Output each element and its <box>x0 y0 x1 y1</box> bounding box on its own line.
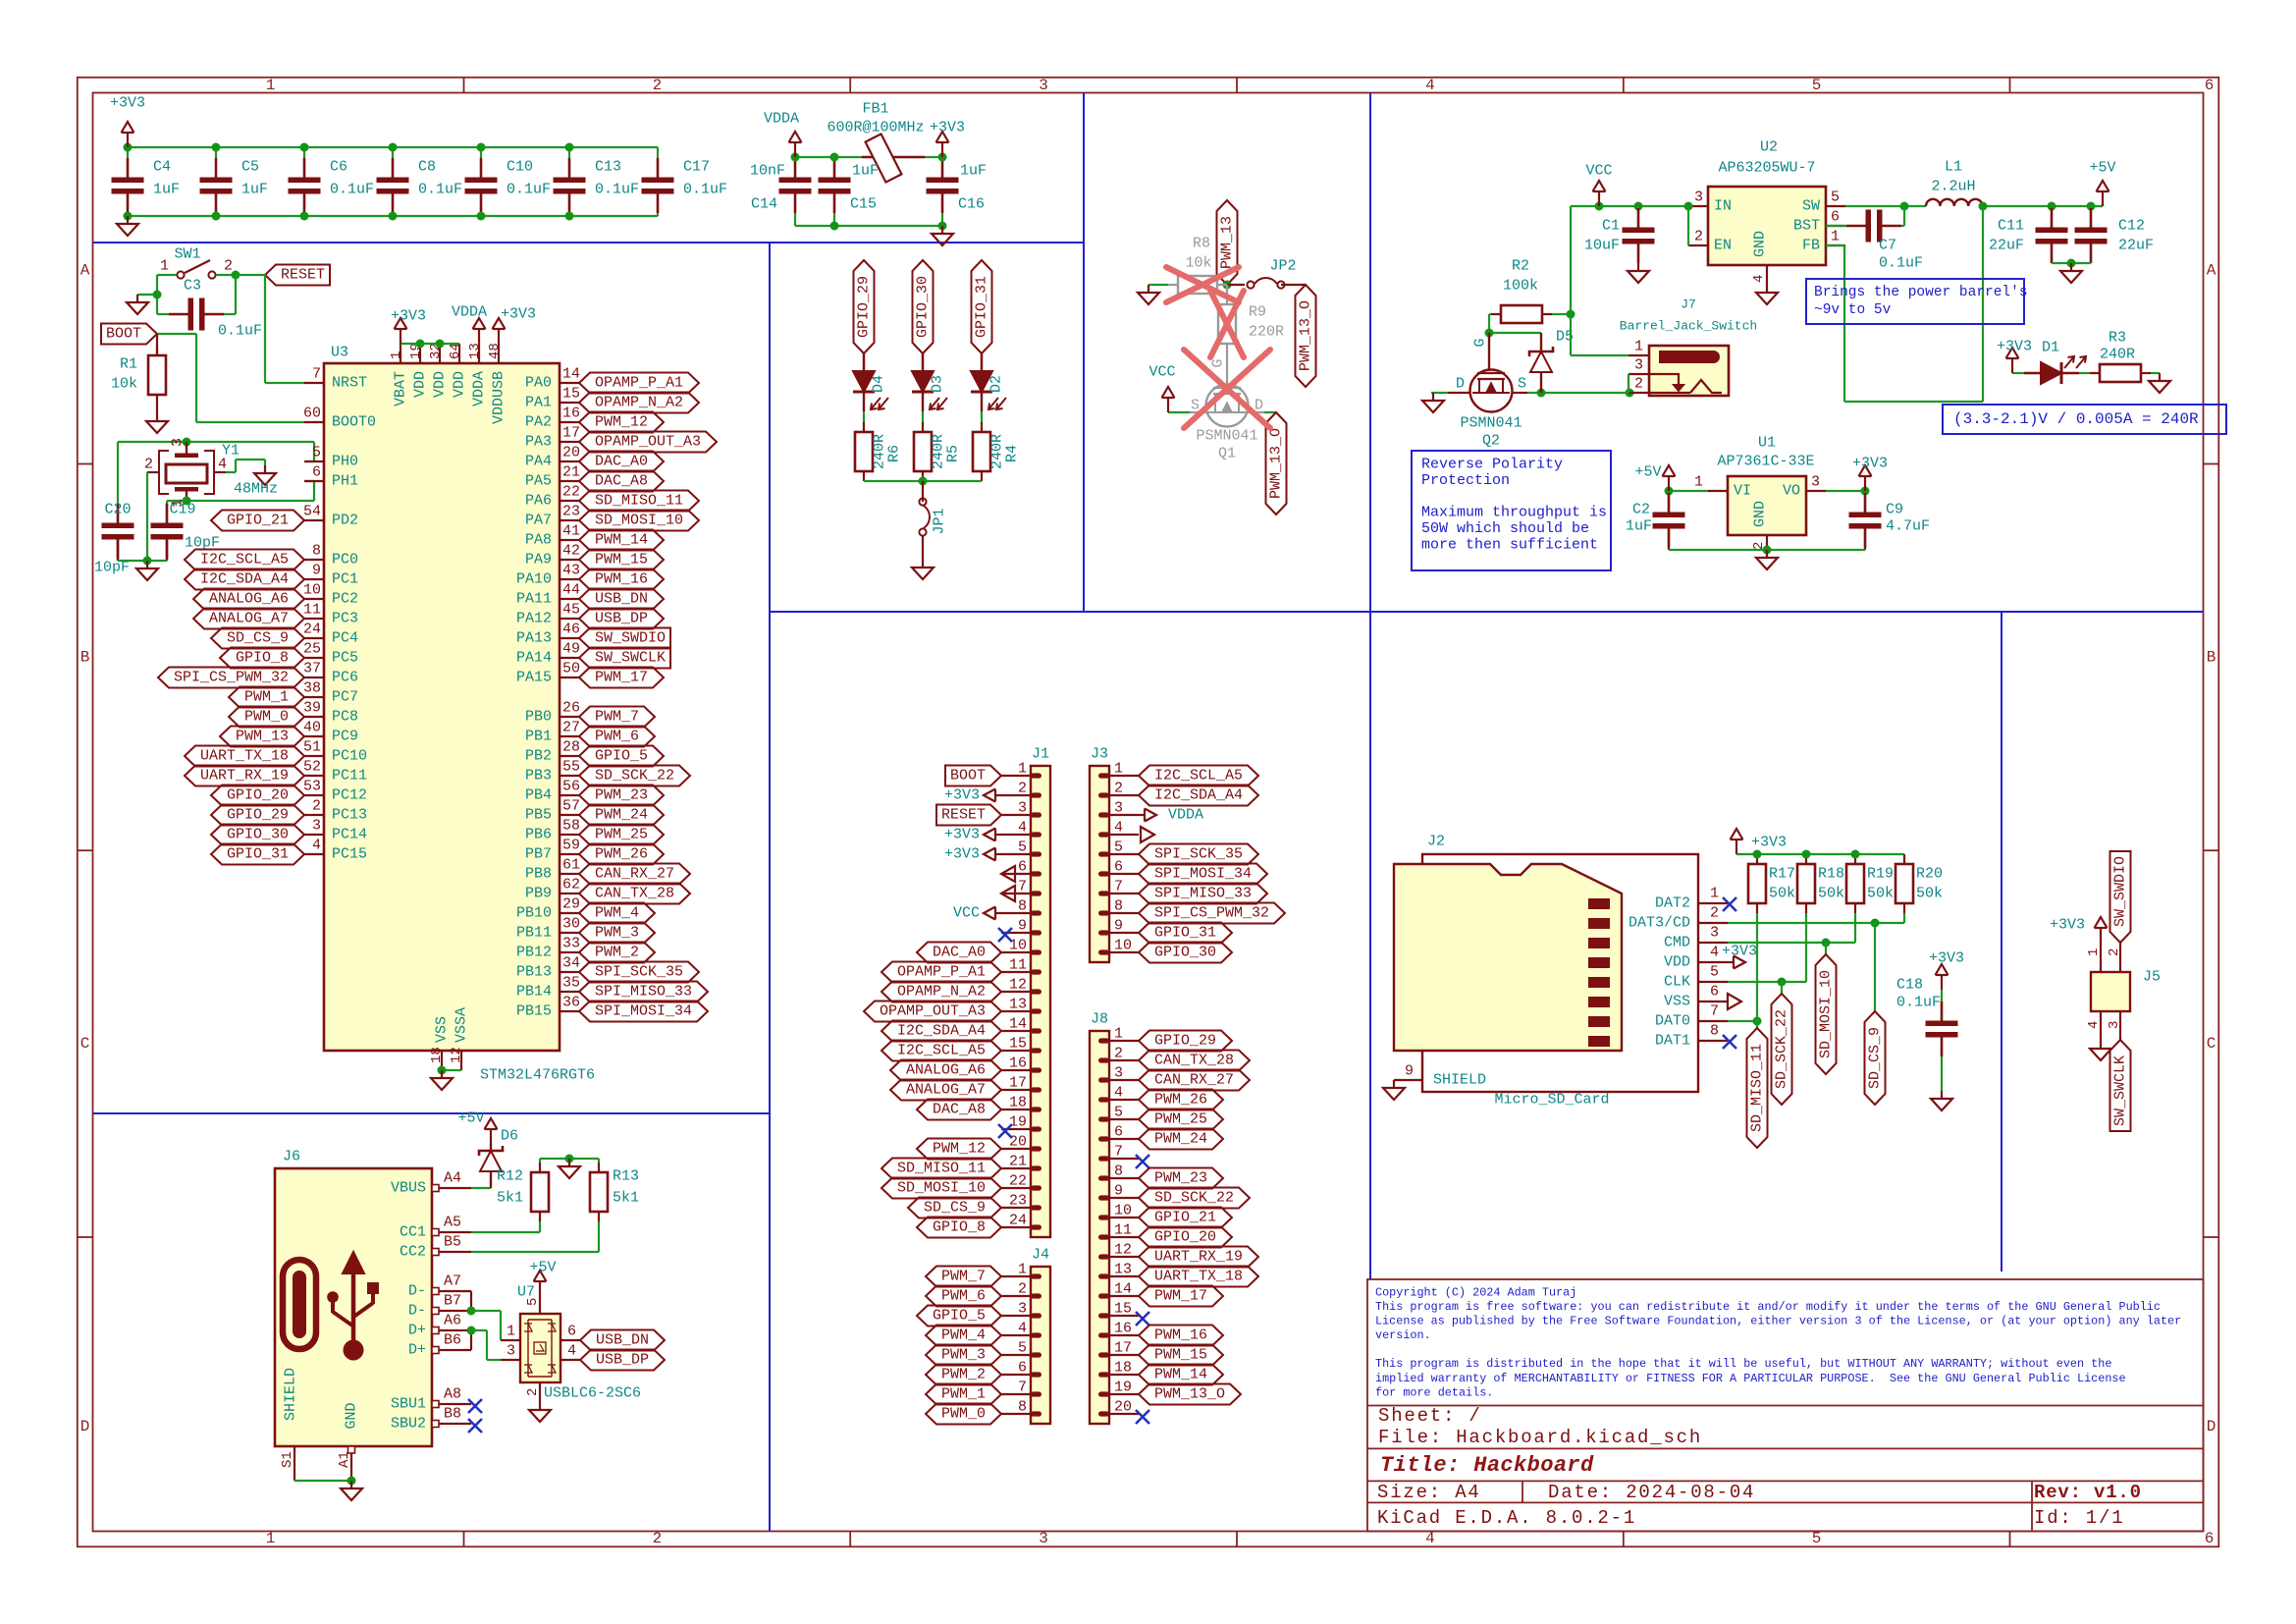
svg-text:19: 19 <box>1009 1114 1027 1131</box>
svg-text:10pF: 10pF <box>94 560 130 576</box>
svg-text:600R@100MHz: 600R@100MHz <box>827 120 924 136</box>
svg-text:KiCad E.D.A. 8.0.2-1: KiCad E.D.A. 8.0.2-1 <box>1377 1507 1636 1529</box>
svg-text:3: 3 <box>1710 925 1719 942</box>
svg-text:PB6: PB6 <box>525 827 552 843</box>
svg-text:SPI_MISO_33: SPI_MISO_33 <box>1154 886 1252 902</box>
svg-text:I2C_SDA_A4: I2C_SDA_A4 <box>897 1023 986 1040</box>
svg-text:SD_SCK_22: SD_SCK_22 <box>1154 1190 1234 1207</box>
svg-text:14: 14 <box>1009 1016 1027 1033</box>
svg-text:PD2: PD2 <box>332 513 358 529</box>
svg-text:GPIO_29: GPIO_29 <box>1154 1033 1216 1050</box>
svg-text:6: 6 <box>2205 77 2215 94</box>
svg-text:C: C <box>80 1035 90 1053</box>
svg-text:PC12: PC12 <box>332 787 367 804</box>
svg-text:VDDA: VDDA <box>1168 807 1203 824</box>
svg-text:35: 35 <box>562 975 580 992</box>
svg-text:PC10: PC10 <box>332 748 367 765</box>
svg-text:0.1uF: 0.1uF <box>507 182 551 198</box>
svg-text:7: 7 <box>1114 879 1123 895</box>
svg-text:4: 4 <box>1425 1530 1435 1547</box>
svg-text:Date: 2024-08-04: Date: 2024-08-04 <box>1548 1482 1755 1503</box>
svg-text:D6: D6 <box>501 1128 518 1145</box>
svg-text:1: 1 <box>266 1530 276 1547</box>
svg-text:A4: A4 <box>444 1170 461 1187</box>
svg-text:52: 52 <box>303 759 321 776</box>
svg-text:GND: GND <box>1752 501 1769 527</box>
svg-text:22: 22 <box>1009 1173 1027 1190</box>
svg-text:PWM_25: PWM_25 <box>1154 1111 1207 1128</box>
svg-text:22: 22 <box>562 484 580 501</box>
svg-text:D+: D+ <box>408 1323 426 1339</box>
svg-text:DAC_A0: DAC_A0 <box>933 945 986 961</box>
svg-text:2: 2 <box>1710 905 1719 922</box>
svg-text:PWM_25: PWM_25 <box>595 827 648 843</box>
svg-text:22uF: 22uF <box>2118 238 2154 254</box>
svg-text:8: 8 <box>1018 1399 1027 1416</box>
svg-text:PWM_6: PWM_6 <box>941 1288 986 1305</box>
svg-text:+5V: +5V <box>1634 464 1661 481</box>
svg-text:50k: 50k <box>1818 886 1844 902</box>
svg-text:40: 40 <box>303 720 321 736</box>
svg-text:UART_RX_19: UART_RX_19 <box>200 768 289 785</box>
svg-text:ANALOG_A6: ANALOG_A6 <box>209 591 289 608</box>
svg-text:43: 43 <box>562 563 580 579</box>
svg-text:C9: C9 <box>1886 502 1903 518</box>
svg-text:SPI_MISO_33: SPI_MISO_33 <box>595 984 692 1001</box>
svg-text:12: 12 <box>1009 977 1027 994</box>
svg-text:62: 62 <box>562 877 580 893</box>
svg-text:5: 5 <box>312 445 321 461</box>
svg-text:I2C_SCL_A5: I2C_SCL_A5 <box>897 1043 986 1059</box>
svg-text:10nF: 10nF <box>750 163 785 180</box>
svg-text:VI: VI <box>1734 483 1751 500</box>
svg-text:J4: J4 <box>1032 1247 1049 1264</box>
svg-text:7: 7 <box>312 366 321 383</box>
svg-text:GND: GND <box>344 1402 360 1429</box>
svg-text:for more details.: for more details. <box>1375 1385 1493 1399</box>
svg-text:R8: R8 <box>1193 236 1210 252</box>
svg-text:UART_TX_18: UART_TX_18 <box>1154 1269 1243 1285</box>
svg-text:34: 34 <box>562 955 580 972</box>
svg-text:PWM_13: PWM_13 <box>1219 216 1236 269</box>
svg-text:PWM_13_O: PWM_13_O <box>1268 428 1285 499</box>
svg-text:U1: U1 <box>1758 435 1776 452</box>
svg-text:R5: R5 <box>945 445 962 462</box>
svg-text:Size: A4: Size: A4 <box>1377 1482 1481 1503</box>
svg-text:11: 11 <box>1114 1222 1132 1239</box>
svg-text:PB10: PB10 <box>516 905 552 922</box>
svg-text:GPIO_8: GPIO_8 <box>933 1219 986 1236</box>
svg-text:RESET: RESET <box>281 267 325 284</box>
svg-text:100k: 100k <box>1503 278 1538 295</box>
svg-text:J1: J1 <box>1032 746 1049 763</box>
svg-text:A8: A8 <box>444 1386 461 1403</box>
svg-text:GPIO_30: GPIO_30 <box>1154 945 1216 961</box>
svg-text:8: 8 <box>1114 1164 1123 1180</box>
svg-text:PA13: PA13 <box>516 630 552 647</box>
svg-text:CC2: CC2 <box>400 1244 426 1261</box>
svg-text:USB_DN: USB_DN <box>595 591 648 608</box>
svg-text:PWM_13_O: PWM_13_O <box>1298 300 1314 371</box>
svg-text:6: 6 <box>1018 859 1027 876</box>
svg-text:A5: A5 <box>444 1215 461 1231</box>
svg-text:VCC: VCC <box>1585 163 1612 180</box>
svg-text:A: A <box>80 262 90 280</box>
svg-text:SPI_MOSI_34: SPI_MOSI_34 <box>595 1003 692 1020</box>
svg-text:VDDA: VDDA <box>471 371 488 406</box>
svg-text:J8: J8 <box>1091 1011 1108 1028</box>
svg-text:3: 3 <box>1694 189 1703 206</box>
svg-text:J5: J5 <box>2143 969 2161 986</box>
svg-text:PWM_0: PWM_0 <box>941 1406 986 1423</box>
svg-text:DAT3/CD: DAT3/CD <box>1629 915 1690 932</box>
svg-text:L1: L1 <box>1945 159 1962 176</box>
svg-text:6: 6 <box>312 464 321 481</box>
svg-text:1: 1 <box>389 352 404 359</box>
svg-text:GPIO_30: GPIO_30 <box>227 827 289 843</box>
svg-text:3: 3 <box>1114 1065 1123 1082</box>
svg-text:D-: D- <box>408 1303 426 1320</box>
svg-text:PB7: PB7 <box>525 846 552 863</box>
svg-text:U3: U3 <box>331 345 348 361</box>
svg-text:54: 54 <box>303 504 321 520</box>
svg-text:7: 7 <box>1018 879 1027 895</box>
svg-text:UART_TX_18: UART_TX_18 <box>200 748 289 765</box>
svg-text:50k: 50k <box>1769 886 1795 902</box>
svg-text:3: 3 <box>2107 1021 2122 1029</box>
svg-text:5: 5 <box>1710 964 1719 981</box>
svg-text:R17: R17 <box>1769 866 1795 883</box>
svg-text:PWM_24: PWM_24 <box>1154 1131 1207 1148</box>
svg-text:48: 48 <box>487 343 503 359</box>
svg-text:6: 6 <box>2205 1530 2215 1547</box>
svg-text:9: 9 <box>1114 1183 1123 1200</box>
svg-text:PA3: PA3 <box>525 434 552 451</box>
svg-text:SD_MOSI_10: SD_MOSI_10 <box>595 513 683 529</box>
svg-text:J7: J7 <box>1681 298 1696 312</box>
svg-text:+3V3: +3V3 <box>501 306 536 323</box>
svg-text:PC15: PC15 <box>332 846 367 863</box>
svg-text:57: 57 <box>562 798 580 815</box>
svg-text:C: C <box>2207 1035 2216 1053</box>
svg-text:PWM_6: PWM_6 <box>595 729 639 745</box>
svg-text:CMD: CMD <box>1664 935 1690 951</box>
svg-text:6: 6 <box>1114 859 1123 876</box>
svg-text:PA5: PA5 <box>525 473 552 490</box>
svg-text:+3V3: +3V3 <box>1751 835 1787 851</box>
svg-text:VCC: VCC <box>953 905 980 922</box>
svg-text:55: 55 <box>562 759 580 776</box>
svg-text:GND: GND <box>1752 231 1769 257</box>
svg-text:GPIO_21: GPIO_21 <box>227 513 289 529</box>
svg-text:PC2: PC2 <box>332 591 358 608</box>
svg-text:SD_MOSI_10: SD_MOSI_10 <box>1818 970 1835 1058</box>
svg-text:27: 27 <box>562 720 580 736</box>
svg-text:CAN_TX_28: CAN_TX_28 <box>1154 1053 1234 1069</box>
svg-text:C8: C8 <box>418 159 436 176</box>
svg-text:PC13: PC13 <box>332 807 367 824</box>
svg-text:SBU1: SBU1 <box>391 1396 426 1413</box>
svg-text:PSMN041: PSMN041 <box>1460 415 1522 432</box>
svg-text:4: 4 <box>312 838 321 854</box>
svg-text:OPAMP_P_A1: OPAMP_P_A1 <box>595 375 683 392</box>
svg-text:3: 3 <box>1018 1301 1027 1318</box>
svg-text:1: 1 <box>1634 339 1643 355</box>
svg-text:SD_CS_9: SD_CS_9 <box>924 1200 986 1217</box>
svg-text:VCC: VCC <box>1148 364 1175 381</box>
svg-text:+3V3: +3V3 <box>1997 339 2032 355</box>
svg-text:11: 11 <box>303 602 321 619</box>
svg-text:4: 4 <box>567 1343 576 1360</box>
svg-text:9: 9 <box>1018 918 1027 935</box>
svg-text:VBUS: VBUS <box>391 1180 426 1197</box>
svg-text:SBU2: SBU2 <box>391 1416 426 1433</box>
svg-text:C20: C20 <box>104 502 131 518</box>
svg-text:R1: R1 <box>120 356 137 373</box>
svg-text:PWM_16: PWM_16 <box>1154 1327 1207 1344</box>
svg-text:OPAMP_N_A2: OPAMP_N_A2 <box>595 395 683 411</box>
svg-text:D: D <box>2207 1418 2216 1435</box>
svg-text:5: 5 <box>1114 1105 1123 1121</box>
svg-text:37: 37 <box>303 661 321 677</box>
svg-text:B5: B5 <box>444 1234 461 1251</box>
svg-text:28: 28 <box>562 739 580 756</box>
svg-text:10k: 10k <box>111 376 137 393</box>
svg-text:SW1: SW1 <box>174 246 200 263</box>
svg-text:C19: C19 <box>169 502 195 518</box>
svg-text:This program is free software:: This program is free software: you can r… <box>1375 1300 2161 1314</box>
svg-text:GPIO_31: GPIO_31 <box>1154 925 1216 942</box>
svg-text:VDDA: VDDA <box>452 304 487 321</box>
svg-text:C12: C12 <box>2118 218 2145 235</box>
svg-text:SPI_CS_PWM_32: SPI_CS_PWM_32 <box>174 670 289 686</box>
svg-text:EN: EN <box>1714 238 1732 254</box>
svg-text:45: 45 <box>562 602 580 619</box>
svg-text:39: 39 <box>303 700 321 717</box>
svg-text:OPAMP_OUT_A3: OPAMP_OUT_A3 <box>595 434 701 451</box>
svg-text:29: 29 <box>562 896 580 913</box>
svg-text:PA6: PA6 <box>525 493 552 510</box>
svg-text:59: 59 <box>562 838 580 854</box>
svg-text:PWM_13_O: PWM_13_O <box>1154 1386 1225 1403</box>
svg-text:PWM_14: PWM_14 <box>1154 1367 1207 1383</box>
svg-text:PH1: PH1 <box>332 473 358 490</box>
svg-text:PWM_0: PWM_0 <box>244 709 289 726</box>
svg-text:5: 5 <box>1831 189 1840 206</box>
svg-text:4.7uF: 4.7uF <box>1886 518 1930 535</box>
svg-text:4: 4 <box>1114 820 1123 837</box>
svg-text:2: 2 <box>1018 781 1027 797</box>
svg-text:3: 3 <box>1018 800 1027 817</box>
svg-text:ANALOG_A7: ANALOG_A7 <box>906 1082 986 1099</box>
svg-text:5: 5 <box>1018 839 1027 856</box>
svg-text:4: 4 <box>2086 1021 2102 1029</box>
svg-text:0.1uF: 0.1uF <box>330 182 374 198</box>
svg-text:2: 2 <box>1634 376 1643 393</box>
svg-text:PWM_12: PWM_12 <box>933 1141 986 1158</box>
svg-text:CAN_TX_28: CAN_TX_28 <box>595 886 674 902</box>
svg-text:44: 44 <box>562 582 580 599</box>
svg-text:26: 26 <box>562 700 580 717</box>
svg-text:9: 9 <box>312 563 321 579</box>
svg-text:GPIO_5: GPIO_5 <box>933 1308 986 1325</box>
svg-text:VDD: VDD <box>412 371 429 398</box>
svg-text:16: 16 <box>1009 1056 1027 1072</box>
svg-text:~9v to 5v: ~9v to 5v <box>1814 302 1892 318</box>
svg-text:1uF: 1uF <box>960 163 987 180</box>
svg-text:SW_SWDIO: SW_SWDIO <box>2112 856 2129 927</box>
svg-text:PWM_4: PWM_4 <box>941 1327 986 1344</box>
svg-text:G: G <box>1472 338 1489 347</box>
svg-text:OPAMP_OUT_A3: OPAMP_OUT_A3 <box>880 1003 986 1020</box>
svg-text:6: 6 <box>1114 1124 1123 1141</box>
svg-text:DAT0: DAT0 <box>1655 1013 1690 1030</box>
svg-text:AP7361C-33E: AP7361C-33E <box>1717 454 1814 470</box>
svg-text:B6: B6 <box>444 1332 461 1349</box>
svg-text:Copyright (C) 2024 Adam Turaj: Copyright (C) 2024 Adam Turaj <box>1375 1286 1576 1300</box>
svg-text:Sheet: /: Sheet: / <box>1378 1405 1482 1427</box>
svg-text:1uF: 1uF <box>153 182 180 198</box>
svg-text:B7: B7 <box>444 1293 461 1310</box>
svg-text:+3V3: +3V3 <box>1722 944 1757 960</box>
svg-text:1uF: 1uF <box>1626 518 1652 535</box>
svg-text:USBLC6-2SC6: USBLC6-2SC6 <box>544 1385 641 1402</box>
svg-text:License as published by the Fr: License as published by the Free Softwar… <box>1375 1315 2181 1328</box>
svg-text:53: 53 <box>303 779 321 795</box>
svg-text:C18: C18 <box>1896 977 1923 994</box>
svg-text:23: 23 <box>1009 1193 1027 1210</box>
svg-text:IN: IN <box>1714 198 1732 215</box>
svg-text:5: 5 <box>525 1298 541 1306</box>
svg-text:PWM_17: PWM_17 <box>1154 1288 1207 1305</box>
svg-text:PC6: PC6 <box>332 670 358 686</box>
svg-text:J2: J2 <box>1427 834 1445 850</box>
svg-text:3: 3 <box>312 818 321 835</box>
svg-text:+3V3: +3V3 <box>944 827 980 843</box>
svg-text:5k1: 5k1 <box>613 1190 639 1207</box>
svg-text:PWM_26: PWM_26 <box>1154 1092 1207 1109</box>
svg-text:PB3: PB3 <box>525 768 552 785</box>
svg-text:0.1uF: 0.1uF <box>683 182 727 198</box>
svg-text:SHIELD: SHIELD <box>283 1368 299 1421</box>
svg-text:USB_DP: USB_DP <box>596 1352 649 1369</box>
svg-text:1: 1 <box>1710 886 1719 902</box>
svg-text:SPI_SCK_35: SPI_SCK_35 <box>1154 846 1243 863</box>
svg-text:PC4: PC4 <box>332 630 358 647</box>
svg-text:PB14: PB14 <box>516 984 552 1001</box>
svg-text:C1: C1 <box>1602 218 1620 235</box>
svg-text:3: 3 <box>170 438 187 447</box>
svg-text:PB4: PB4 <box>525 787 552 804</box>
svg-text:10uF: 10uF <box>1584 238 1620 254</box>
svg-text:1: 1 <box>2086 948 2102 956</box>
svg-text:21: 21 <box>562 464 580 481</box>
svg-text:PA9: PA9 <box>525 552 552 568</box>
svg-text:6: 6 <box>1018 1360 1027 1377</box>
svg-text:PWM_1: PWM_1 <box>941 1386 986 1403</box>
svg-text:GPIO_8: GPIO_8 <box>236 650 289 667</box>
svg-text:SD_MOSI_10: SD_MOSI_10 <box>897 1180 986 1197</box>
svg-text:C15: C15 <box>850 196 877 213</box>
svg-text:SD_MISO_11: SD_MISO_11 <box>595 493 683 510</box>
svg-text:7: 7 <box>1018 1380 1027 1396</box>
svg-text:SD_MISO_11: SD_MISO_11 <box>1749 1044 1766 1132</box>
svg-text:VDD: VDD <box>452 371 468 398</box>
svg-text:50k: 50k <box>1916 886 1943 902</box>
svg-text:S1: S1 <box>280 1451 295 1468</box>
svg-text:4: 4 <box>218 457 227 473</box>
svg-text:GPIO_5: GPIO_5 <box>595 748 648 765</box>
svg-text:GPIO_21: GPIO_21 <box>1154 1210 1216 1226</box>
svg-text:PB12: PB12 <box>516 945 552 961</box>
svg-text:56: 56 <box>562 779 580 795</box>
svg-text:18: 18 <box>1009 1095 1027 1111</box>
svg-text:PC14: PC14 <box>332 827 367 843</box>
svg-text:4: 4 <box>1751 275 1767 283</box>
svg-text:10: 10 <box>1114 938 1132 954</box>
svg-text:PWM_3: PWM_3 <box>595 925 639 942</box>
svg-text:VDD: VDD <box>432 371 449 398</box>
svg-text:A7: A7 <box>444 1273 461 1290</box>
svg-text:2: 2 <box>653 77 663 94</box>
svg-text:PWM_2: PWM_2 <box>941 1367 986 1383</box>
svg-text:Brings the power barrel's: Brings the power barrel's <box>1814 285 2028 300</box>
svg-text:R4: R4 <box>1004 445 1021 462</box>
svg-text:PWM_15: PWM_15 <box>1154 1347 1207 1364</box>
svg-text:PA10: PA10 <box>516 571 552 588</box>
svg-text:24: 24 <box>303 622 321 638</box>
svg-text:48MHz: 48MHz <box>234 481 278 498</box>
svg-text:12: 12 <box>1114 1242 1132 1259</box>
svg-text:PC7: PC7 <box>332 689 358 706</box>
svg-text:PC11: PC11 <box>332 768 367 785</box>
svg-text:C4: C4 <box>153 159 171 176</box>
svg-text:Reverse Polarity: Reverse Polarity <box>1421 457 1563 473</box>
svg-text:PSMN041: PSMN041 <box>1196 428 1257 445</box>
svg-text:61: 61 <box>562 857 580 874</box>
svg-text:4: 4 <box>1114 1085 1123 1102</box>
svg-text:PWM_13: PWM_13 <box>236 729 289 745</box>
svg-text:6: 6 <box>1710 984 1719 1001</box>
svg-text:GPIO_31: GPIO_31 <box>227 846 289 863</box>
svg-text:20: 20 <box>562 445 580 461</box>
svg-text:R3: R3 <box>2109 330 2126 347</box>
svg-text:NRST: NRST <box>332 375 367 392</box>
svg-text:D+: D+ <box>408 1342 426 1359</box>
svg-text:PB0: PB0 <box>525 709 552 726</box>
svg-text:7: 7 <box>1710 1003 1719 1020</box>
svg-text:G: G <box>1210 358 1227 367</box>
svg-text:24: 24 <box>1009 1213 1027 1229</box>
svg-text:0.1uF: 0.1uF <box>1879 255 1923 272</box>
svg-text:OPAMP_N_A2: OPAMP_N_A2 <box>897 984 986 1001</box>
svg-text:Protection: Protection <box>1421 472 1510 489</box>
svg-text:1: 1 <box>160 258 169 275</box>
svg-text:DAT2: DAT2 <box>1655 895 1690 912</box>
svg-text:PB9: PB9 <box>525 886 552 902</box>
svg-text:0.1uF: 0.1uF <box>595 182 639 198</box>
svg-text:1uF: 1uF <box>852 163 879 180</box>
svg-text:version.: version. <box>1375 1328 1431 1342</box>
svg-text:15: 15 <box>1114 1301 1132 1318</box>
svg-text:2.2uH: 2.2uH <box>1931 179 1975 195</box>
svg-text:GPIO_31: GPIO_31 <box>974 276 990 338</box>
svg-text:PC8: PC8 <box>332 709 358 726</box>
svg-text:VDDUSB: VDDUSB <box>491 371 507 424</box>
svg-text:2: 2 <box>144 457 153 473</box>
svg-text:C17: C17 <box>683 159 710 176</box>
svg-text:PH0: PH0 <box>332 454 358 470</box>
